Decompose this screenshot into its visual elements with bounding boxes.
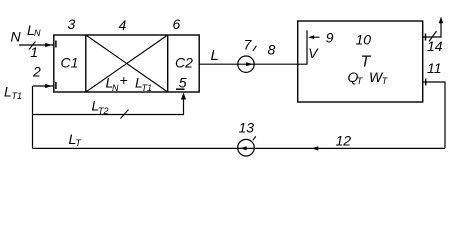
svg-text:T2: T2 [98,106,109,116]
turbine box T [298,21,423,102]
svg-text:V: V [308,45,319,61]
wire 14 (exhaust) [423,23,441,37]
arrowhead wire 2 [45,84,52,88]
wire 11 (condensate out) [423,82,445,148]
wire L from C2 to turbine [199,63,298,65]
flow meter circle 7 [238,56,254,72]
arrowhead inside circle 13 [240,146,247,150]
bottom return wire 12 / L_T [33,147,446,149]
divider C2 section [167,35,169,92]
svg-text:3: 3 [68,16,76,32]
arrowhead wire N [45,43,52,47]
svg-text:8: 8 [268,42,276,58]
arrowhead wire 14 up [439,17,443,24]
cross diagonal 2 [86,35,168,92]
svg-text:T: T [361,54,372,71]
flow meter circle 13 [238,139,255,156]
svg-text:14: 14 [427,38,443,54]
svg-text:+: + [120,72,128,88]
wire N (air inlet) [19,44,54,46]
divider C1 section [85,35,87,92]
slash mark 1 [29,42,36,50]
leader tick circle 7 [253,46,257,51]
inner steam pipe (up-turn) [298,30,307,64]
leader tick circle 13 [253,136,256,140]
arrowhead wire 12 left [312,146,319,150]
svg-text:T1: T1 [142,83,153,93]
wire L_T2 [33,99,184,115]
tick node 5 at box bottom [176,88,185,90]
heat exchanger outer box (sections 3,4,6) [54,35,199,92]
svg-text:N: N [34,28,41,38]
left vertical return wire [32,86,34,148]
svg-text:11: 11 [427,60,442,76]
slash mark on L_T2 [121,110,129,119]
slash mark 14 [429,31,437,42]
svg-text:12: 12 [336,133,352,149]
cross diagonal 1 [86,35,168,92]
svg-text:5: 5 [179,74,187,90]
wire 2 (L_T1 inlet) [33,85,54,87]
arrowhead inside circle 7 [246,62,253,66]
svg-text:1: 1 [30,44,38,60]
svg-text:N: N [112,83,119,93]
svg-text:N: N [11,29,22,45]
svg-text:2: 2 [32,64,41,80]
svg-text:6: 6 [173,16,181,32]
svg-text:C1: C1 [61,55,79,71]
svg-text:4: 4 [119,17,127,33]
svg-text:9: 9 [326,30,334,46]
svg-text:L: L [211,47,219,64]
arrowhead wire 5 (up into box) [181,93,186,100]
tick wire N at box edge [55,41,57,48]
svg-text:13: 13 [239,120,255,136]
svg-text:7: 7 [244,37,253,53]
tick wire 14 [425,34,427,41]
tick wire 2 at box edge [55,82,57,89]
tick wire 11 [425,79,427,86]
arrow 9 (velocity V) [310,36,320,38]
svg-text:C2: C2 [175,55,193,71]
svg-text:T1: T1 [12,91,23,101]
svg-text:10: 10 [356,32,372,48]
